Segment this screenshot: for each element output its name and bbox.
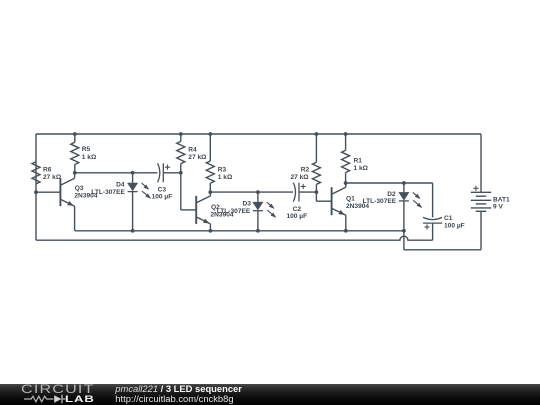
- svg-text:R3: R3: [218, 167, 227, 174]
- svg-text:C3: C3: [158, 186, 167, 193]
- svg-text:D2: D2: [387, 191, 396, 198]
- svg-text:R1: R1: [354, 157, 363, 164]
- svg-text:100 µF: 100 µF: [444, 222, 465, 229]
- svg-text:C2: C2: [293, 206, 302, 213]
- svg-text:100 µF: 100 µF: [286, 213, 307, 220]
- svg-text:D4: D4: [116, 182, 125, 189]
- svg-text:Q1: Q1: [346, 195, 355, 202]
- svg-text:100 µF: 100 µF: [152, 193, 173, 200]
- svg-text:R5: R5: [82, 146, 91, 153]
- svg-text:R2: R2: [301, 166, 310, 173]
- svg-text:LTL-307EE: LTL-307EE: [363, 198, 397, 205]
- svg-text:Q3: Q3: [75, 185, 84, 192]
- svg-text:9 V: 9 V: [493, 203, 503, 210]
- svg-text:LTL-307EE: LTL-307EE: [91, 189, 125, 196]
- svg-text:27 kΩ: 27 kΩ: [43, 174, 62, 181]
- svg-text:1 kΩ: 1 kΩ: [218, 174, 233, 181]
- svg-text:D3: D3: [242, 201, 251, 208]
- svg-text:BAT1: BAT1: [493, 196, 510, 203]
- svg-text:1 kΩ: 1 kΩ: [354, 165, 369, 172]
- svg-text:R4: R4: [188, 147, 197, 154]
- svg-text:C1: C1: [444, 215, 453, 222]
- svg-text:R6: R6: [43, 167, 52, 174]
- svg-text:27 kΩ: 27 kΩ: [290, 174, 309, 181]
- svg-text:27 kΩ: 27 kΩ: [188, 154, 207, 161]
- svg-text:LTL-307EE: LTL-307EE: [217, 208, 251, 215]
- svg-text:1 kΩ: 1 kΩ: [82, 154, 97, 161]
